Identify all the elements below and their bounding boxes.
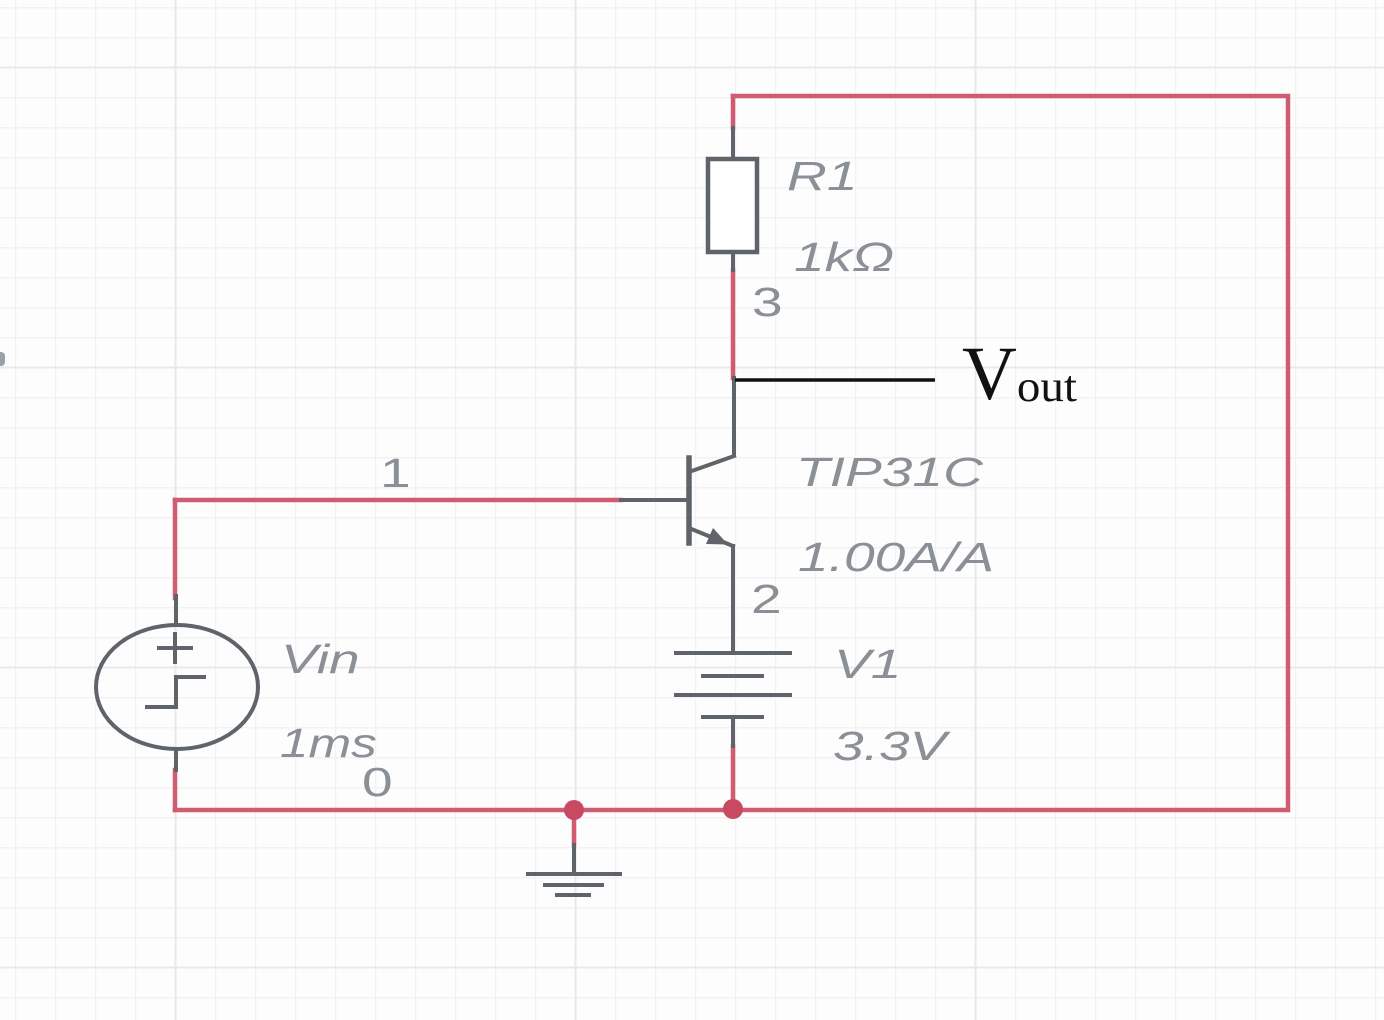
svg-text:3: 3: [752, 280, 783, 326]
svg-text:0: 0: [362, 760, 393, 806]
svg-text:V1: V1: [834, 642, 901, 688]
svg-text:TIP31C: TIP31C: [796, 450, 984, 496]
svg-text:2: 2: [751, 577, 782, 623]
svg-text:Vin: Vin: [281, 637, 360, 683]
svg-text:1: 1: [380, 451, 411, 497]
svg-text:R1: R1: [787, 154, 857, 200]
svg-text:3.3V: 3.3V: [833, 724, 952, 770]
svg-text:1.00A/A: 1.00A/A: [798, 535, 994, 581]
svg-text:1kΩ: 1kΩ: [794, 235, 894, 281]
